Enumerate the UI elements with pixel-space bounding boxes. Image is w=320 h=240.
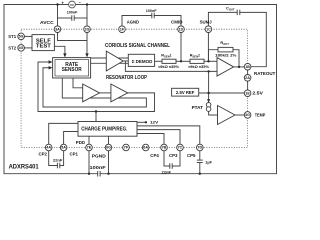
pin 1C SUMJ [205,26,212,33]
pin 5G ST1 [18,33,25,40]
component/net labels [8,19,275,159]
svg-text:ST1: ST1 [8,34,16,40]
wire: charge pump to CP3 7B [137,134,164,145]
capacitor 22nF between 7B and 7C [164,151,170,166]
supply +/- and 5V labels [61,0,81,7]
value labels [53,6,237,175]
wire: coriolis amp to demod [123,60,128,62]
svg-text:CMID: CMID [171,19,183,25]
capacitor C 100nF between AGND 1F and CMID 1D [122,16,152,26]
svg-text:CP1: CP1 [70,152,79,158]
pin 7D CP5 [197,144,204,151]
wire: demod to RSEN1 [155,60,162,62]
wire: AVCC rail from + junction down to 3A [57,5,59,26]
svg-text:2.5V REF: 2.5V REF [176,90,195,95]
svg-text:ADXRS401: ADXRS401 [9,164,40,171]
wire: ST2 to self test [24,47,32,49]
capacitor C 100nF across 5V supply [58,17,72,19]
capacitor: 100nF supply decoupling plates in bottom rail [97,171,99,176]
wire: resonator loop outer feedback [38,62,155,112]
wire: RSEN2 to SUMJ node and op-amp [204,60,217,62]
svg-text:2A: 2A [245,76,250,80]
box: RATE SENSOR outer [53,58,91,78]
wire: outer supply loop top/left/right/bottom [4,5,98,174]
svg-text:7E: 7E [87,146,92,150]
svg-text:CHARGE PUMP/REG.: CHARGE PUMP/REG. [81,127,128,133]
wire: PDD 7E up to charge pump [88,136,90,144]
pin 6A CP4 [142,144,149,151]
wire: R_OUT feedback [209,50,219,62]
wire: PGND 6G up to charge pump [108,136,110,144]
svg-text:SUMJ: SUMJ [200,19,212,25]
wire: pin chain 1B-2A-1E [247,70,249,75]
svg-text:6A: 6A [143,146,148,150]
svg-text:≈9kΩ ±35%: ≈9kΩ ±35% [188,64,210,69]
wire: rate sensor to coriolis amp pair [91,57,129,59]
svg-text:7D: 7D [197,146,202,150]
svg-text:5V: 5V [70,3,74,7]
pin circles [18,26,251,151]
wire: ST1 to self test [24,35,32,37]
wire: rate sensor to resonator amp 1 [73,78,83,88]
svg-text:5A: 5A [61,146,66,150]
capacitor 1uF on CP5 7D to rail [199,151,201,160]
svg-text:1F: 1F [120,27,124,31]
wire: PTAT to temp amp [209,111,218,115]
wire: op-amp output to RATEOUT 1B [234,66,245,68]
svg-text:6G: 6G [106,146,111,150]
svg-text:CP5: CP5 [187,153,196,159]
svg-text:22nF: 22nF [162,170,172,175]
wire: charge pump to 7C [137,130,180,145]
svg-text:12V: 12V [150,119,159,124]
capacitor 22nF between 4A and 5A [49,151,58,166]
wire: 6G down to rail [108,151,110,174]
arrowhead: inner loop into rate sensor [49,66,53,69]
wire: RSEN1 to RSEN2 with CMID tap [176,60,190,62]
svg-text:1C: 1C [206,27,211,31]
pin 7F [123,144,130,151]
svg-text:100nF: 100nF [146,8,157,13]
wire: charge pump feed from loop [95,112,97,122]
svg-text:PGND: PGND [92,154,106,160]
svg-text:7B: 7B [162,146,167,150]
svg-text:≈9kΩ ±35%: ≈9kΩ ±35% [158,64,180,69]
pin 1E 2.5V [244,90,251,97]
svg-text:5G: 5G [19,35,24,39]
supply source: 5V circle [69,1,76,8]
svg-text:100nF: 100nF [67,9,78,14]
svg-text:CORIOLIS SIGNAL CHANNEL: CORIOLIS SIGNAL CHANNEL [105,43,170,49]
svg-text:100nF: 100nF [90,165,106,171]
svg-text:3G: 3G [245,113,250,117]
current source PTAT symbol [206,103,211,108]
wire: self test output into rate sensor [54,46,65,56]
resistor R_OUT body [218,47,233,52]
box texts [36,39,195,133]
svg-text:CP2: CP2 [39,152,48,158]
wire: 7E down to rail [88,151,90,174]
op-amp: resonator loop amp 1 [83,84,100,102]
arrowhead: AVCC into rate sensor [85,53,88,57]
svg-text:180kΩ 1%: 180kΩ 1% [215,52,237,57]
pin 5A CP1 [60,144,67,151]
pin 6G PGND [105,144,112,151]
capacitor C_OUT from SUMJ 1C to RATEOUT [208,12,237,26]
pin 4G ST2 [18,45,25,52]
wire: 2.5V REF to 1E [199,92,245,94]
pin 1F AGND [119,26,126,33]
wire: CP2 4A to charge pump [49,123,78,144]
arrowhead: self test into rate sensor [63,53,66,57]
section labels [9,43,170,171]
svg-text:SENSOR: SENSOR [62,67,82,73]
arrowhead: 2.5V into PTAT [207,99,210,102]
wire: op-amp + input rail from demod [125,61,217,71]
svg-text:AGND: AGND [127,20,140,26]
box: RATE SENSOR inner [55,60,89,76]
svg-text:2.5V: 2.5V [252,91,263,97]
wire: charge pump to 12V terminal [137,121,146,123]
svg-text:1D: 1D [179,27,184,31]
wire: temp amp to TEMP 3G [235,114,244,116]
svg-text:TEMP: TEMP [255,112,266,118]
package outline dashed [21,29,248,147]
op-amp: coriolis amplifier triangle [106,51,123,71]
box: 2.5V REF [172,88,199,96]
svg-text:2G: 2G [85,27,90,31]
arrowhead: outer loop into rate sensor [49,60,53,63]
pin 1B RATEOUT [244,63,251,70]
svg-text:PTAT: PTAT [192,105,203,111]
svg-text:4G: 4G [19,46,24,50]
svg-text:TEST: TEST [36,44,51,50]
svg-text:7F: 7F [124,146,128,150]
resistor RSEN2 body [190,59,204,63]
wire: rail from - junction down to 2G [86,5,88,26]
wire: resonator amp1 to amp2 [100,92,111,94]
svg-text:3A: 3A [55,27,60,31]
pin 4A CP2 [45,144,52,151]
wire: charge pump to CP5 7D [137,126,200,144]
svg-text:1E: 1E [245,91,250,95]
svg-text:1µF: 1µF [205,159,212,164]
pin 3G TEMP [244,112,251,119]
pin 1D CMID [178,26,185,33]
box: CHARGE PUMP/REG [78,122,137,137]
svg-text:AVCC: AVCC [40,20,54,26]
svg-text:Σ DEMOD: Σ DEMOD [132,59,153,64]
resistor RSEN1 body [162,59,176,63]
wire: SUMJ 1C drop [207,33,209,62]
pin number labels [19,27,251,149]
op-amp: temperature amplifier [218,106,236,125]
svg-text:ST2: ST2 [8,46,16,52]
wire: resonator loop inner feedback [43,68,146,107]
box: SELF TEST [32,35,54,51]
svg-text:1B: 1B [245,65,250,69]
svg-text:4A: 4A [46,146,51,150]
op-amp: rate output amplifier [217,58,234,77]
svg-text:RESONATOR LOOP: RESONATOR LOOP [106,75,148,81]
pin 7C [177,144,184,151]
svg-text:CP4: CP4 [150,153,159,159]
svg-text:RATEOUT: RATEOUT [254,71,275,77]
pin 3A AVCC [54,26,61,33]
svg-text:7C: 7C [178,146,183,150]
wire: 2.5V down to PTAT [208,71,210,100]
pin 7B CP3 [161,144,168,151]
pin 2A [244,75,251,82]
wire: CMID 1D drop [180,33,182,62]
pin 7E PDD [86,144,93,151]
wire: CP1 5A to charge pump [64,132,78,145]
box: sigma demod [128,54,154,66]
svg-text:22nF: 22nF [53,157,63,162]
svg-text:PDD: PDD [76,140,86,146]
wire: AVCC 3A/2G into rate sensor [58,33,88,41]
pin 2G [84,26,91,33]
op-amp: resonator loop amp 2 [111,84,128,102]
svg-text:CP3: CP3 [169,153,178,159]
